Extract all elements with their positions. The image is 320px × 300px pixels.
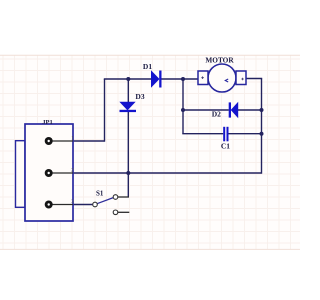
wire left loop vertical (182, 79, 184, 134)
wire C1 row right (228, 133, 261, 135)
capacitor C1 (223, 127, 228, 142)
wire pin2 row (73, 172, 262, 174)
svg-text:S1: S1 (96, 190, 104, 198)
svg-text:3: 3 (71, 199, 74, 205)
diode D1 (152, 71, 162, 88)
wire C1 row left (182, 133, 223, 135)
node junction C1 row right (260, 132, 264, 136)
wire D2 row right (238, 109, 262, 111)
svg-text:1: 1 (71, 135, 74, 141)
svg-text:D2: D2 (212, 109, 221, 118)
wire D3 branch top (127, 79, 129, 103)
wire riser pin1 up (104, 79, 106, 142)
node junction top D2 branch (181, 77, 185, 81)
node junction D2 row right (260, 108, 264, 112)
svg-text:C1: C1 (221, 142, 230, 151)
wire switch top contact link (118, 196, 129, 198)
switch S1 (93, 195, 130, 215)
wire pin1 to riser (73, 140, 105, 142)
svg-text:JP1: JP1 (42, 119, 52, 126)
svg-text:MOTOR: MOTOR (205, 56, 234, 65)
svg-text:D1: D1 (143, 62, 152, 71)
node junction D2 row left (181, 108, 185, 112)
wire right vertical (261, 79, 263, 174)
motor U1 (198, 64, 246, 92)
wire D3 branch down (127, 112, 129, 197)
wire D2 row left (183, 109, 229, 111)
connector JP1 (16, 124, 74, 221)
diode D2 (229, 102, 238, 117)
svg-text:D3: D3 (135, 92, 144, 101)
wire top left to D1 anode (104, 78, 152, 80)
node junction top D3 (126, 77, 130, 81)
node junction pin2 switch riser (126, 171, 130, 175)
diode D3 (120, 102, 137, 112)
sheet background (0, 55, 300, 249)
wire D1 cathode to motor (162, 78, 199, 80)
wire pin3 to switch (73, 204, 92, 206)
svg-text:2: 2 (71, 167, 74, 173)
wire motor right link (246, 78, 262, 80)
